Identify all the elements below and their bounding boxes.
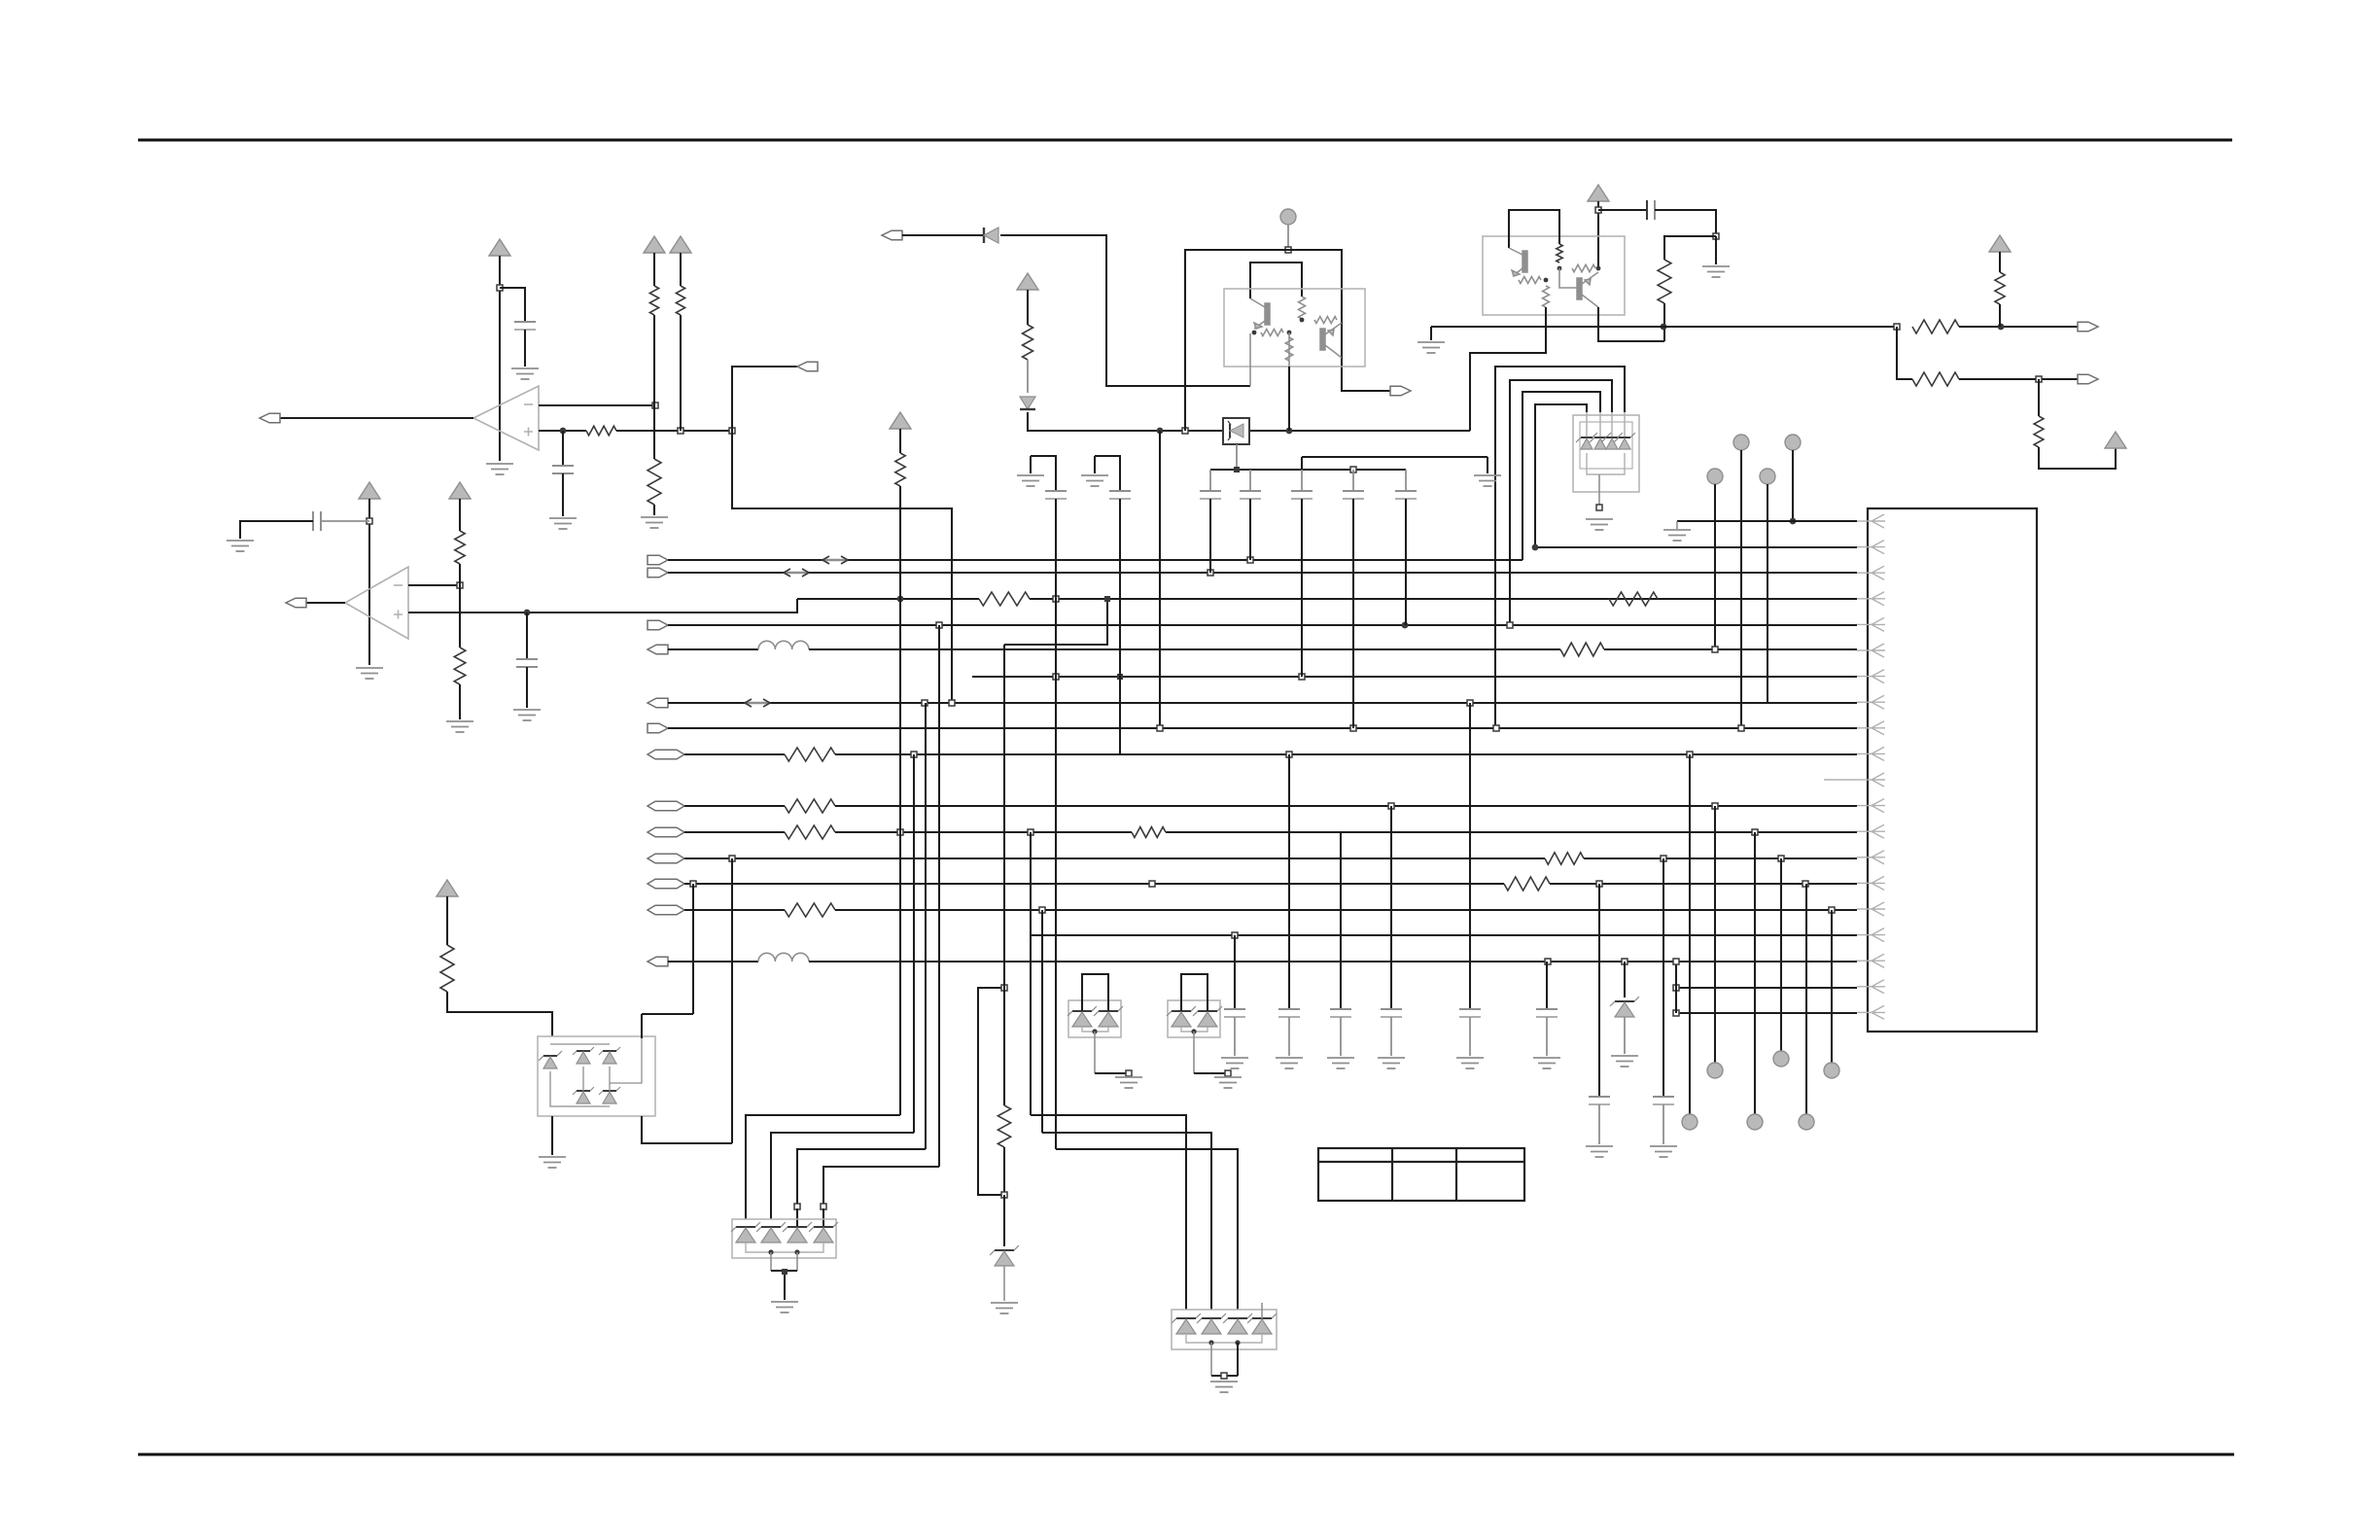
wire v940 down [913,754,915,1133]
connector OUT2 left [286,598,306,608]
wire R2 to row [653,315,655,405]
ground for C17 [1456,1058,1484,1068]
zener Z4a [731,1222,760,1232]
pin 7 of U3 [1872,670,1885,683]
wire op-amp2 power [368,499,370,665]
wire row M to coil [668,961,758,962]
wire stair arch c [1522,392,1600,560]
node junction row13 b [1028,829,1033,835]
wire U2 non-inverting input row [408,599,797,612]
node array A tap2 [794,1249,799,1254]
zener Z4d [809,1222,838,1232]
node box D1 tap [1092,1029,1097,1033]
wire NET336 ground drop [1430,327,1432,340]
wire Q1A emitter to left [1249,333,1251,386]
connector H hex [647,801,684,811]
bridge box outline [538,1036,655,1116]
wire to diode D1 [902,234,985,236]
node junction cap tap [560,428,567,435]
wire row 1016 (pin19) [1676,987,1857,989]
node junction arrayA in4 [821,1204,826,1209]
wire C1 to ground [524,330,526,367]
resistor R30 [895,453,905,486]
node junction array A gnd [782,1269,787,1275]
resistor R14 (Q2A emitter) [1519,277,1541,284]
node array B tap2 [1235,1340,1240,1345]
resistor R3 [647,459,661,505]
wire TP3 stem [1740,450,1742,728]
zener Z7b [1094,1006,1123,1016]
wire row1 (pin1) [1677,520,1857,522]
wire stair arch d [1535,404,1587,547]
wire stair A1 [746,1115,900,1219]
node junction row12 a [1388,803,1394,809]
wire Q2B emitter down [1598,307,1664,341]
node junction row10 b [1286,752,1292,757]
bus wire VREF 443 [1160,430,1223,432]
wire TP5 stem [1792,450,1794,521]
ground for C16 [1378,1058,1405,1068]
test point TP5 [1785,435,1801,450]
ground G17 [1210,1382,1238,1392]
node junction row14 a [729,856,735,861]
bidir mark row E [745,699,770,707]
ground G23 [1650,1146,1677,1157]
wire Q1 base chain to bus [1288,332,1290,367]
ground G16 [771,1302,798,1312]
wire R6 to ground [459,684,461,719]
wire array B bottom rail [1186,1334,1262,1343]
wire VCC11 to R32 [446,896,448,945]
wire v1072 lower [1041,910,1043,1133]
test point TP3 [1733,435,1749,450]
diode D2 bridge [573,1047,594,1064]
node junction row5 a [1402,622,1409,629]
wire VCC6 to R7 [1027,290,1029,325]
capacitor C8 [1301,470,1303,491]
node junction at op-amp1 power [497,285,503,291]
diode D3 bridge [599,1047,620,1064]
wire row G to R23 [684,753,785,755]
pin 4 of U3 [1872,592,1885,606]
capacitor C20 [1662,858,1664,1097]
node junction C5 gnd [1713,233,1719,239]
node junction row4 b [1053,596,1059,602]
node box D2 tap [1191,1029,1196,1033]
wire box D1 feeds [1082,974,1108,1011]
connector D left-in [647,645,668,654]
ground G18 [991,1303,1018,1313]
node junction R15 right [1596,266,1601,271]
wire row 1042 (pin20) [1676,1012,1857,1014]
power flag VCC11 [437,880,458,896]
resistor R11 vertical [1285,337,1292,361]
wire stair arch b [1510,380,1612,625]
inductor L1 [758,641,809,649]
wire box D2 gnd link [1193,1032,1195,1073]
pin 11 of U3 [1872,773,1885,787]
node junction R19 [2036,376,2042,382]
wire row C 643 (pin5) [668,624,1857,626]
node junction row16 a [1039,907,1045,913]
ground G7 [446,721,473,732]
op-amp U2 [345,567,408,639]
ground G14 [1017,475,1044,486]
box Q2 outline [1483,236,1625,315]
border rule bottom [138,1453,2234,1456]
inductor L2 [758,953,809,962]
bidir mark row A [822,556,848,564]
connector J hex [647,854,684,863]
wire C3 left to ground [240,521,313,539]
wire VCC7 down [1597,201,1599,268]
power flag VCC4 [359,482,380,499]
pin 6 of U3 [1872,644,1885,657]
connector FB left [797,362,818,371]
resistor R12 [1658,260,1671,303]
resistor R2 [649,286,658,315]
wire row K 909 (pin15) [684,883,1504,885]
ground G1 under op-amp U1 [486,464,513,474]
wire row D 668 (pin6) [809,648,1560,650]
wire R19 to node [1959,378,2078,380]
wire Z6 to ground [1003,1266,1005,1301]
ground G9 [1702,266,1730,277]
pin 14 of U3 [1872,851,1885,864]
resistor R19 [1912,372,1959,386]
node junction row18 a [1545,959,1551,964]
node junction row6 c [1712,647,1718,652]
node junction row8 a [922,700,927,706]
wire bridge bottom left [551,1116,553,1155]
capacitor C14 [1288,754,1290,1009]
test point TP4 [1760,469,1775,484]
table frame [1318,1148,1524,1201]
power flag VCC10 [890,412,911,429]
wire VCC10 to R30 [899,429,901,453]
IC U3 body [1868,508,2037,1032]
resistor R31 [997,1105,1010,1147]
wire cap rail 470 [1302,456,1487,458]
pin 1 of U3 [1872,514,1885,528]
power flag VCC5 [449,482,471,499]
wire v1724 link [1675,962,1677,1013]
wire to bypass cap C1 [500,288,525,322]
wire corner to R12 [1664,236,1716,260]
ground G5 [227,541,254,551]
test point TP10 [1799,1114,1814,1130]
pin 16 of U3 [1872,902,1885,916]
node junction row7 a [1299,674,1305,680]
zener diode Z1 [1020,397,1035,409]
ground G24 [539,1157,566,1168]
capacitor C12 [1109,490,1131,492]
transistor Q1B [1320,323,1342,358]
connector B right-in [647,568,668,577]
ground G20 [1214,1077,1242,1088]
ground G3 [549,518,577,529]
ground G2 [511,368,539,379]
ground G21 [1611,1056,1638,1067]
resistor R26 row13 [1132,827,1166,838]
power flag VCC3 [670,236,691,253]
wire bridge bottom right [642,1116,732,1143]
zener Z5b [1197,1313,1226,1323]
wire stair B2 [1042,1133,1211,1310]
resistor R23 [785,748,835,761]
resistor R6 [454,647,466,684]
zener Z4b [756,1222,786,1232]
connector I hex [647,827,684,837]
wire row I to R25 [684,831,785,833]
resistor R21 row4 [1609,592,1658,606]
wire TP11 stem [1831,910,1833,1063]
node junction row17 a [1232,932,1238,938]
wire arrayA stubs [796,1208,798,1227]
wire row B 589 (pin3) [668,572,1857,574]
test point TP11 [1824,1063,1839,1078]
node junction row13 a [897,829,903,835]
pin 19 of U3 [1872,980,1885,994]
resistor R32 [440,945,454,992]
node R9 bottom [1300,318,1305,323]
capacitor C11 [1045,490,1067,492]
node junction U2 inv [457,582,463,588]
diode D1 [984,227,998,243]
resistor R17 [1912,320,1959,333]
wire row L to R29 [684,909,785,911]
resistor R10 (to Q1B base) [1314,317,1337,324]
resistor R8 (Q1 base-emitter) [1261,330,1283,336]
node junction row15 b [1149,881,1155,887]
pin 3 of U3 [1872,566,1885,579]
ground G6 under op-amp U2 [356,668,383,679]
zener array A box [732,1219,836,1258]
node junction rail b [1350,467,1356,472]
zener Z8b [1193,1006,1222,1016]
wire row D to coil [668,648,758,650]
wire cap rail 483 [1210,469,1406,471]
node Q1 base node [1252,331,1257,335]
connector C right-in [647,620,668,630]
node junction cap C4 tap [524,610,531,616]
wire row A 576 [668,559,1522,561]
wire stair A3 [797,1149,926,1205]
wire Q1 top rail [1185,250,1390,431]
diode D5 bridge [599,1087,620,1103]
node junction row7 b [1053,674,1059,680]
test point TP9 [1773,1051,1789,1067]
wire R5 to node [459,564,461,585]
wire v1033 upper [1003,645,1005,1105]
node junction bypass top [1001,985,1007,991]
node junction row4 c [1104,596,1110,602]
node junction long net [1661,324,1667,331]
resistor R27 row14 [1545,853,1584,864]
node junction power/cap [367,518,372,524]
node junction row15 c [1596,881,1602,887]
zener pair box D1 outline [1068,1000,1121,1037]
wire R31 to node [1003,1147,1005,1195]
ground G19 [1115,1077,1142,1088]
wire row J 883 (pin14) [684,857,1545,859]
wire v1139 elbow [1004,599,1107,645]
wire C5 node to ground [1715,236,1717,264]
connector K hex [647,879,684,889]
wire array A bottom rail [746,1242,823,1252]
wire bridge rails [550,1043,610,1045]
wire R17 to node [1959,326,2078,328]
zener Z3b [1590,433,1611,442]
connector QOUT right [1390,386,1411,396]
connector DIN left [882,230,902,240]
wire R12 to long net [1663,303,1665,341]
node junction row2/stair [1532,544,1539,551]
resistor R4 [676,286,684,315]
zener Z3d [1614,433,1635,442]
zener array B box [1172,1310,1277,1349]
zener Z9 [1624,962,1626,997]
wire box C bottom rail [1587,453,1625,474]
connector M left-in [647,957,668,966]
resistor R21a row4 [979,592,1030,606]
wire VCC8 to R18 [1999,252,2001,272]
node junction row16 b [1829,907,1835,913]
wire row 616 (pin4) [797,598,979,600]
pin 10 of U3 [1872,747,1885,760]
resistor R20 [2034,416,2044,447]
zener Z5d [1247,1313,1277,1323]
resistor R13 vertical [1557,244,1562,262]
node junction rowA cap [1247,557,1253,563]
node junction v1724/row18 [1673,959,1679,964]
node junction row15 d [1802,881,1808,887]
wire stair A2 [771,1133,914,1219]
zener box Z2 [1223,418,1249,444]
wire stair B3 [1056,1149,1238,1310]
node junction row9 c [1738,725,1744,731]
wire zener box C drop [1236,444,1238,470]
node junction row19 a [1673,985,1679,991]
ground for C18 [1533,1058,1560,1068]
wire row 962 (pin17) [1031,934,1857,936]
wire R18 down [1999,304,2001,327]
capacitor C2 [562,431,564,466]
ground G12 row1 [1676,521,1678,529]
node junction row12 b [1712,803,1718,809]
node junction box D2 gnd [1225,1070,1231,1076]
pin 5 of U3 [1872,617,1885,631]
pin 8 of U3 [1872,695,1885,709]
wire branch down [1897,327,1912,379]
capacitor C5 [1646,200,1648,220]
wire row F 749 (pin9) [668,727,1857,729]
zener Z8a [1167,1006,1196,1016]
wire TP10 stem [1805,884,1807,1114]
power flag VCC2 [644,236,665,253]
wire row L 936 (pin16) [835,909,1857,911]
resistor R16 vertical [1543,286,1550,307]
node junction row8 c [1467,700,1473,706]
capacitor C13 [1234,935,1236,1009]
zener Z5a [1172,1313,1201,1323]
wire bypass loop [978,988,1004,1195]
wire row2 (pin2) [1535,546,1857,548]
wire row 802 stub (pin11) [1824,779,1857,781]
node junction row10 a [911,752,917,757]
wire feedback down-right [732,431,952,703]
node junction row13 c [1752,829,1758,835]
resistor R5 [455,531,465,564]
capacitor C17 [1469,703,1471,1009]
ground G10 [1417,342,1445,353]
wire v713 down [692,884,694,1014]
test point TP2 [1707,469,1723,484]
wire cap struct W1 [1031,456,1056,491]
node junction arrayA in3 [794,1204,800,1209]
wire row E 723 (pin8) [668,702,1857,704]
ground G13 [1474,475,1501,486]
capacitor C15 [1340,832,1342,1009]
wire diode D1 to corner [1000,235,1250,386]
connector OUTA right [2078,322,2098,332]
resistor R25 [785,825,835,839]
pin 12 of U3 [1872,799,1885,813]
capacitor C6 [1209,470,1211,491]
node junction row5 b [1507,622,1513,628]
node junction row14 c [1778,856,1784,861]
wire Z9 gnd [1624,1017,1626,1054]
resistor R22 row6 [1560,643,1604,656]
node junction row20 a [1673,1010,1679,1016]
wire TP2 stem [1714,484,1716,651]
connector F right-in [647,723,668,733]
wire stair B1 [1031,1115,1186,1310]
connector E left-in [647,698,668,708]
wire row H to R24 [684,805,785,807]
test point TP1 [1280,209,1296,225]
zener Z5c [1223,1313,1252,1323]
power flag VCC8 [1989,235,2011,252]
node junction row9 d [1157,725,1163,731]
node junction R4 bottom [678,428,683,434]
wire R3 to ground [653,505,655,515]
connector OUTB right [2078,374,2098,384]
node junction row10 c [1687,752,1693,757]
pin 15 of U3 [1872,876,1885,890]
power flag VCC1 [489,239,510,256]
long wire NET336 [1431,326,1897,328]
resistor R18 [1995,272,2005,304]
wire array B to ground [1210,1343,1212,1376]
node array A tap1 [768,1249,773,1254]
capacitor C4 [526,612,528,659]
ground G22 [1586,1146,1613,1157]
wire TP7 stem [1714,806,1716,1063]
zener Z3a [1576,433,1597,442]
wire feedback to connector [732,367,797,431]
node junction array B gnd [1221,1373,1227,1379]
wire C3 to power node [321,520,369,522]
node array B tap1 [1208,1340,1213,1345]
wire Q2B base link [1559,268,1577,288]
wire U1 non-inverting input [539,430,586,432]
wire cap struct W2 [1095,456,1120,491]
wire row H 829 (pin12) [835,805,1857,807]
node junction R14 [1544,278,1549,283]
node junction rowB cap [1207,570,1213,576]
wire array A to ground [770,1252,772,1271]
